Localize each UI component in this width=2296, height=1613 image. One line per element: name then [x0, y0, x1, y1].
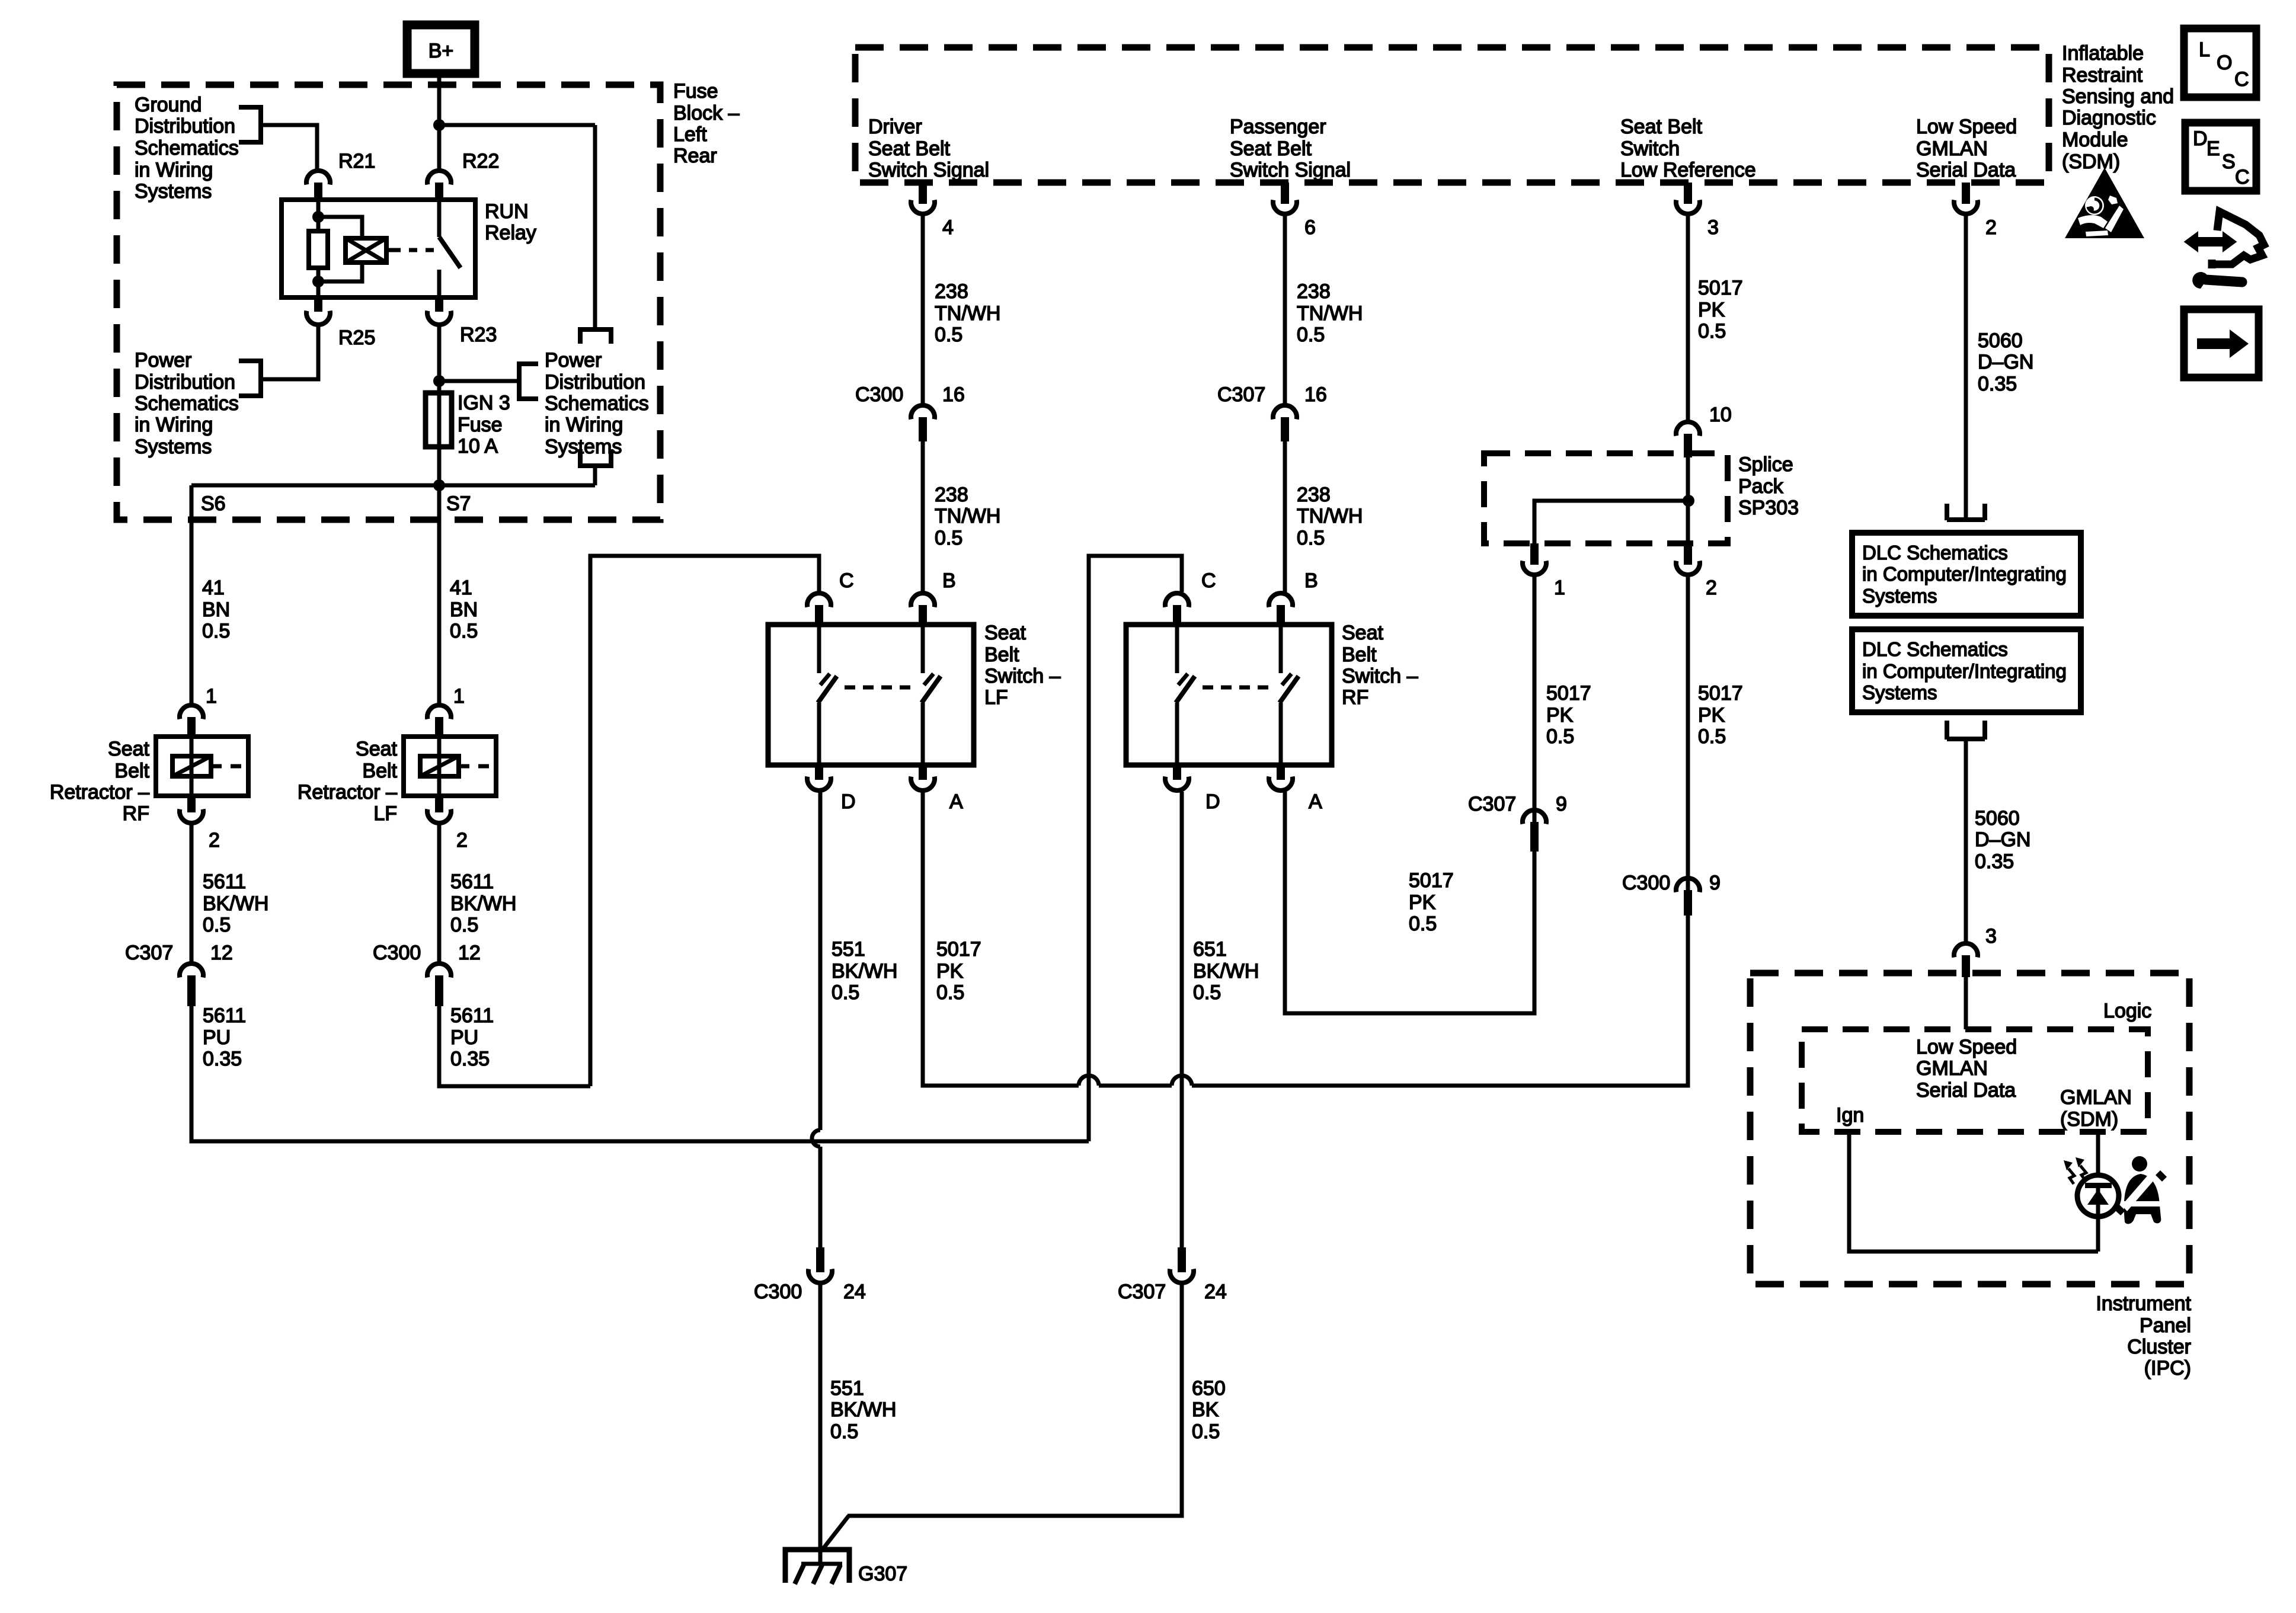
seat belt retractor RF box [156, 737, 248, 796]
icon DESC box [2185, 123, 2256, 191]
svg-text:D: D [2193, 127, 2208, 150]
svg-text:238: 238 [1297, 280, 1331, 303]
svg-text:PU: PU [450, 1026, 478, 1049]
svg-text:Low Reference: Low Reference [1620, 159, 1756, 181]
SDM pin 4 connector [911, 183, 954, 239]
svg-text:RF: RF [1342, 686, 1368, 709]
svg-text:Switch –: Switch – [1342, 665, 1418, 687]
svg-text:RF: RF [123, 802, 149, 825]
label 551 BK/WH 0.5 upper [832, 938, 897, 1004]
label 5060 D-GN 0.35 upper [1978, 329, 2033, 395]
svg-text:0.5: 0.5 [1698, 725, 1726, 748]
label 551 BK/WH 0.5 lower [830, 1377, 896, 1443]
svg-text:Seat: Seat [1342, 622, 1383, 644]
svg-text:C300: C300 [373, 942, 421, 964]
svg-text:2: 2 [1985, 216, 1997, 239]
svg-text:Schematics: Schematics [135, 392, 239, 415]
svg-text:2: 2 [1706, 577, 1717, 599]
inline connector C300-12 [373, 942, 481, 1006]
wire R25 to power distribution bracket left [263, 326, 318, 379]
svg-text:C307: C307 [1118, 1281, 1166, 1303]
svg-text:in Computer/Integrating: in Computer/Integrating [1862, 563, 2067, 585]
svg-text:Distribution: Distribution [135, 371, 235, 393]
wire 651 BK/WH switch RF pin D to C307-24 [1180, 792, 1184, 1247]
svg-text:238: 238 [1297, 484, 1331, 506]
connector 10 splice pack [1676, 404, 1732, 457]
svg-text:Switch –: Switch – [984, 665, 1061, 687]
svg-text:0.5: 0.5 [832, 981, 859, 1004]
svg-text:Switch Signal: Switch Signal [868, 159, 989, 181]
svg-text:16: 16 [942, 383, 965, 406]
logic inner dashed outline [1802, 1029, 2148, 1132]
label 238 TN/WH 0.5 lower (driver) [935, 484, 1000, 549]
label wire 41 BN 0.5 (LF column) [450, 577, 478, 642]
wire 551 BK/WH switch LF pin D to C300-24 [812, 792, 820, 1247]
inline connector C307-24 [1118, 1247, 1227, 1303]
svg-text:C300: C300 [1622, 872, 1670, 894]
relay junction node upper [312, 211, 324, 223]
svg-text:Serial Data: Serial Data [1916, 1079, 2016, 1102]
svg-text:551: 551 [830, 1377, 864, 1400]
svg-text:0.5: 0.5 [936, 981, 964, 1004]
wire 5611 PU LF retractor to switch LF pin C [439, 556, 819, 1086]
svg-text:Instrument: Instrument [2096, 1292, 2191, 1315]
svg-text:5611: 5611 [203, 1004, 246, 1027]
label 5017 PK 0.5 (LF A column) [936, 938, 981, 1004]
label logic [2103, 1000, 2151, 1022]
junction node fuse top [433, 375, 517, 387]
svg-text:Passenger: Passenger [1230, 116, 1326, 138]
svg-text:Serial Data: Serial Data [1916, 159, 2016, 181]
svg-text:B+: B+ [428, 40, 454, 62]
svg-text:Retractor –: Retractor – [50, 781, 149, 804]
svg-text:(SDM): (SDM) [2060, 1108, 2118, 1131]
svg-text:6: 6 [1304, 216, 1316, 239]
label wire 5611 PU 0.35 (RF) [203, 1004, 246, 1070]
svg-text:in Computer/Integrating: in Computer/Integrating [1862, 660, 2067, 682]
bracket power distribution right of fuse [519, 361, 538, 401]
svg-text:R25: R25 [338, 327, 375, 349]
seat belt retractor LF box [404, 737, 496, 796]
connector R23 [427, 297, 497, 346]
DLC schematics box 2 [1852, 629, 2081, 712]
svg-text:Panel: Panel [2140, 1314, 2191, 1337]
bracket power distribution upper right [578, 329, 613, 344]
svg-text:12: 12 [458, 942, 481, 964]
svg-text:Logic: Logic [2103, 1000, 2151, 1022]
label seat belt switch LF [984, 622, 1061, 709]
pin 1 connector of retractor RF [180, 685, 217, 739]
svg-text:BK/WH: BK/WH [1193, 960, 1259, 982]
svg-text:Relay: Relay [485, 222, 536, 244]
label power distribution schematics left [135, 349, 239, 458]
svg-text:5060: 5060 [1975, 807, 2020, 830]
svg-text:0.5: 0.5 [1698, 320, 1726, 343]
svg-text:9: 9 [1709, 872, 1721, 894]
svg-text:D: D [841, 791, 856, 813]
svg-text:41: 41 [202, 577, 225, 599]
pin labels C B D A (LF switch) [839, 569, 963, 813]
inline connector C300-24 [754, 1247, 866, 1303]
svg-text:C300: C300 [855, 383, 903, 406]
instrument panel cluster dashed outline [1750, 973, 2189, 1284]
svg-text:Power: Power [545, 349, 602, 372]
svg-text:Systems: Systems [1862, 681, 1937, 703]
svg-text:(IPC): (IPC) [2144, 1357, 2191, 1380]
inline connector C307-16 [1217, 383, 1327, 441]
svg-text:5017: 5017 [1546, 682, 1591, 705]
svg-text:C: C [2235, 166, 2250, 188]
svg-text:Diagnostic: Diagnostic [2062, 107, 2156, 129]
fuse IGN 3 [426, 392, 510, 457]
seat belt switch RF box [1126, 593, 1332, 791]
svg-text:D–GN: D–GN [1978, 351, 2033, 373]
svg-text:D–GN: D–GN [1975, 828, 2030, 851]
svg-text:Low Speed: Low Speed [1916, 1036, 2017, 1058]
wire pin 3 into logic box [1964, 977, 1968, 1029]
svg-text:0.5: 0.5 [450, 914, 478, 936]
label S6 [201, 492, 226, 515]
IPC pin 3 connector [1954, 925, 1997, 977]
wire 238 TN/WH lower (driver) [921, 441, 925, 592]
svg-text:D: D [1205, 791, 1220, 813]
svg-text:TN/WH: TN/WH [935, 302, 1000, 325]
icon communication hand and wrench [2186, 212, 2264, 289]
label 5017 PK 0.5 (pin 3 column) [1698, 277, 1743, 343]
icon forward arrow box [2184, 309, 2259, 377]
svg-text:5611: 5611 [450, 870, 494, 893]
svg-text:Systems: Systems [135, 436, 212, 458]
connector R25 [306, 297, 375, 349]
relay coil branch wires [318, 217, 362, 281]
connector R21 [306, 150, 375, 201]
wire lower right bracket to S7 bus [593, 466, 597, 485]
svg-text:BK/WH: BK/WH [832, 960, 897, 982]
label 5017 PK 0.5 (pin 2 column) [1698, 682, 1743, 748]
wire 5060 D-GN to IPC pin 3 [1964, 739, 1968, 942]
power feed B+ box [407, 25, 475, 73]
svg-text:R22: R22 [462, 150, 499, 172]
svg-text:Left: Left [673, 123, 707, 146]
svg-text:Inflatable: Inflatable [2062, 42, 2144, 65]
svg-text:0.35: 0.35 [450, 1048, 490, 1070]
svg-text:C307: C307 [125, 942, 173, 964]
svg-text:Ign: Ign [1836, 1104, 1864, 1126]
relay resistor [309, 231, 328, 268]
svg-text:3: 3 [1985, 925, 1997, 948]
label 5017 PK 0.5 (pin 1 column) [1546, 682, 1591, 748]
wire 238 TN/WH upper (passenger) [1283, 215, 1287, 404]
seat belt switch LF box [768, 593, 974, 791]
svg-text:Belt: Belt [1342, 644, 1377, 666]
relay switch fixed contact lower [437, 270, 442, 295]
svg-text:TN/WH: TN/WH [1297, 302, 1363, 325]
svg-text:DLC Schematics: DLC Schematics [1862, 542, 2008, 564]
seat belt indicator LED [2077, 1175, 2119, 1252]
wire ground distribution bracket to R21 [263, 125, 317, 169]
label 650 BK 0.5 [1192, 1377, 1226, 1443]
wire 238 TN/WH lower (passenger) [1283, 441, 1287, 592]
svg-text:3: 3 [1707, 216, 1719, 239]
svg-text:0.35: 0.35 [1978, 373, 2017, 395]
wire 5017 PK SP303 pin1 to C307-9 [1533, 576, 1537, 823]
svg-text:Schematics: Schematics [135, 137, 239, 159]
wire R23 down through fuse to S7 [437, 326, 442, 485]
label 651 BK/WH 0.5 [1193, 938, 1259, 1004]
svg-text:9: 9 [1556, 793, 1567, 815]
seat belt wearer icon [2113, 1156, 2167, 1224]
svg-text:DLC Schematics: DLC Schematics [1862, 638, 2008, 660]
inflatable restraint SDM dashed outline [855, 47, 2049, 183]
label gmlan sdm node [2060, 1086, 2132, 1131]
wire 41 BN to seat belt retractor RF [190, 485, 194, 704]
label wire 5611 BK/WH 0.5 (RF) [203, 870, 268, 936]
svg-text:C: C [839, 569, 854, 592]
svg-text:Sensing and: Sensing and [2062, 85, 2174, 108]
svg-text:4: 4 [942, 216, 954, 239]
svg-text:0.5: 0.5 [1193, 981, 1221, 1004]
svg-text:BK/WH: BK/WH [203, 892, 268, 915]
label driver seat belt switch signal [868, 116, 989, 181]
svg-text:0.5: 0.5 [202, 620, 230, 642]
run relay box [282, 200, 536, 297]
svg-text:Pack: Pack [1738, 475, 1784, 498]
SDM airbag warning triangle [2065, 168, 2144, 238]
pin 1 connector of retractor LF [427, 685, 465, 739]
svg-text:TN/WH: TN/WH [935, 505, 1000, 527]
svg-text:TN/WH: TN/WH [1297, 505, 1363, 527]
svg-text:24: 24 [1204, 1281, 1227, 1303]
inline connector C300-9 [1622, 872, 1721, 916]
svg-text:BK/WH: BK/WH [830, 1398, 896, 1421]
svg-text:C300: C300 [754, 1281, 802, 1303]
svg-text:0.5: 0.5 [1546, 725, 1574, 748]
bracket ground distribution [239, 105, 261, 145]
svg-text:Distribution: Distribution [545, 371, 645, 393]
svg-text:C: C [2234, 68, 2249, 91]
svg-text:Cluster: Cluster [2127, 1336, 2191, 1358]
inline connector C307-12 [125, 942, 233, 1006]
wire 5611 BK/WH retractor LF [437, 824, 442, 962]
svg-text:Power: Power [135, 349, 191, 372]
svg-text:0.5: 0.5 [935, 527, 962, 549]
svg-text:PK: PK [1698, 299, 1725, 321]
label wire 5611 BK/WH 0.5 (LF) [450, 870, 516, 936]
svg-text:238: 238 [935, 484, 968, 506]
svg-text:41: 41 [450, 577, 472, 599]
svg-text:0.5: 0.5 [203, 914, 231, 936]
label wire 5611 PU 0.35 (LF) [450, 1004, 494, 1070]
svg-text:R23: R23 [460, 324, 497, 346]
label seat belt switch RF [1342, 622, 1418, 709]
svg-text:in Wiring: in Wiring [135, 414, 213, 436]
svg-text:GMLAN: GMLAN [1916, 137, 1988, 160]
label power distribution schematics right [545, 349, 649, 458]
svg-text:S6: S6 [201, 492, 226, 515]
bracket from DLC schematics lower [1947, 721, 1985, 740]
svg-text:Driver: Driver [868, 116, 922, 138]
svg-text:5611: 5611 [203, 870, 246, 893]
svg-text:Belt: Belt [362, 760, 397, 782]
relay wire below resistor [316, 268, 321, 295]
svg-text:(SDM): (SDM) [2062, 151, 2120, 173]
svg-text:24: 24 [843, 1281, 866, 1303]
relay switch blade [439, 237, 461, 268]
svg-text:LF: LF [373, 802, 397, 825]
wire gmlan sdm to indicator [2096, 1132, 2100, 1176]
svg-text:0.5: 0.5 [1409, 913, 1437, 935]
SDM pin 2 connector [1954, 183, 1997, 239]
svg-text:Seat: Seat [356, 738, 397, 760]
svg-text:S: S [2222, 151, 2236, 173]
svg-text:BK: BK [1192, 1398, 1219, 1421]
splice pack SP303 dashed outline [1484, 453, 1728, 543]
bracket power distribution left [239, 359, 261, 398]
svg-text:BK/WH: BK/WH [450, 892, 516, 915]
svg-text:GMLAN: GMLAN [2060, 1086, 2132, 1109]
wire C300-9 to switch LF pin A [923, 792, 1688, 1086]
svg-text:B: B [1304, 569, 1318, 592]
svg-text:1: 1 [1554, 577, 1565, 599]
wire 5611 PU RF retractor to switch RF pin C [191, 556, 1182, 1141]
svg-text:Module: Module [2062, 129, 2128, 151]
svg-text:Seat Belt: Seat Belt [1620, 116, 1703, 138]
wire 5017 PK SDM pin 3 to SP303 pin 10 [1686, 215, 1690, 421]
relay junction node lower [312, 276, 324, 287]
svg-text:0.35: 0.35 [1975, 850, 2014, 873]
ground G307 symbol [785, 1550, 849, 1584]
svg-text:Seat: Seat [108, 738, 149, 760]
svg-text:551: 551 [832, 938, 865, 961]
label 5017 PK 0.5 (RF A column) [1409, 869, 1454, 935]
svg-text:10 A: 10 A [458, 435, 498, 457]
svg-text:R21: R21 [338, 150, 375, 172]
svg-text:O: O [2217, 52, 2232, 74]
svg-text:1: 1 [453, 685, 465, 708]
svg-text:PK: PK [1698, 704, 1725, 727]
svg-text:C307: C307 [1217, 383, 1265, 406]
label ign node [1836, 1104, 1864, 1126]
svg-text:PK: PK [936, 960, 964, 982]
svg-text:16: 16 [1304, 383, 1327, 406]
label 238 TN/WH 0.5 upper (passenger) [1297, 280, 1363, 346]
svg-text:in Wiring: in Wiring [135, 159, 213, 181]
SP303 pin 2 connector [1676, 543, 1717, 599]
svg-text:S7: S7 [446, 492, 471, 515]
svg-text:Distribution: Distribution [135, 115, 235, 137]
svg-text:12: 12 [210, 942, 233, 964]
svg-text:B: B [942, 569, 956, 592]
svg-text:LF: LF [984, 686, 1008, 709]
label passenger seat belt switch signal [1230, 116, 1351, 181]
SDM pin 3 connector [1676, 183, 1719, 239]
svg-text:IGN 3: IGN 3 [458, 392, 510, 414]
svg-text:2: 2 [456, 829, 468, 852]
svg-text:5017: 5017 [1698, 277, 1743, 299]
svg-text:0.5: 0.5 [935, 324, 962, 346]
svg-text:0.5: 0.5 [450, 620, 478, 642]
relay switch fixed contact upper [437, 202, 442, 237]
connector R22 [427, 125, 499, 201]
junction node B+ / R22 / power distribution [433, 119, 595, 131]
svg-text:238: 238 [935, 280, 968, 303]
DLC schematics box 1 [1852, 533, 2081, 616]
svg-text:Rear: Rear [673, 145, 717, 167]
svg-text:0.5: 0.5 [1297, 527, 1325, 549]
label seat belt retractor LF [298, 738, 398, 825]
bus wire S6-S7 [191, 484, 595, 488]
icon LOC box [2184, 28, 2256, 97]
svg-text:651: 651 [1193, 938, 1227, 961]
svg-text:Fuse: Fuse [458, 414, 503, 436]
svg-text:C307: C307 [1468, 793, 1516, 815]
wire 5060 D-GN SDM pin 2 down [1964, 215, 1968, 518]
label low speed gmlan serial data (SDM) [1916, 116, 2017, 181]
SP303 pin 1 connector [1523, 543, 1565, 599]
inline connector C300-16 [855, 383, 965, 441]
svg-text:1: 1 [206, 685, 217, 708]
SDM pin 6 connector [1273, 183, 1316, 239]
svg-text:RUN: RUN [485, 200, 529, 223]
svg-text:Block –: Block – [673, 102, 740, 124]
label seat belt retractor RF [50, 738, 150, 825]
bracket power distribution lower right [578, 449, 613, 466]
fuse block - left rear dashed outline [117, 85, 660, 520]
label SDM module [2062, 42, 2174, 173]
label S7 [446, 492, 471, 515]
svg-text:SP303: SP303 [1738, 497, 1799, 519]
svg-text:Schematics: Schematics [545, 392, 649, 415]
relay coil element [346, 238, 386, 263]
pin 2 connector of retractor RF [180, 796, 220, 852]
svg-text:Low Speed: Low Speed [1916, 116, 2017, 138]
svg-text:Restraint: Restraint [2062, 64, 2143, 87]
svg-text:10: 10 [1709, 404, 1732, 426]
wire C307-9 to switch RF pin A [1285, 792, 1534, 1013]
svg-text:BN: BN [202, 599, 230, 621]
wire ign to lamp return [1849, 1132, 2098, 1252]
wire 650 BK to ground junction [821, 1284, 1182, 1551]
svg-text:5060: 5060 [1978, 329, 2023, 352]
svg-text:Systems: Systems [1862, 585, 1937, 607]
label splice pack SP303 [1738, 453, 1799, 519]
svg-text:Switch: Switch [1620, 137, 1680, 160]
svg-text:Seat: Seat [984, 622, 1026, 644]
wire 238 TN/WH upper (driver) [921, 215, 925, 404]
svg-text:L: L [2199, 39, 2210, 61]
svg-text:5017: 5017 [1409, 869, 1454, 892]
svg-text:2: 2 [209, 829, 220, 852]
svg-text:Belt: Belt [114, 760, 149, 782]
label seat belt switch low reference [1620, 116, 1756, 181]
label 238 TN/WH 0.5 lower (passenger) [1297, 484, 1363, 549]
label 238 TN/WH 0.5 upper (driver) [935, 280, 1000, 346]
svg-text:0.5: 0.5 [830, 1420, 858, 1443]
relay coil feed wire left [316, 202, 321, 231]
svg-text:5017: 5017 [936, 938, 981, 961]
svg-text:Splice: Splice [1738, 453, 1793, 476]
svg-text:A: A [949, 791, 963, 813]
svg-text:BN: BN [450, 599, 478, 621]
svg-text:5017: 5017 [1698, 682, 1743, 705]
svg-text:Seat Belt: Seat Belt [1230, 137, 1312, 160]
svg-text:E: E [2207, 137, 2220, 160]
svg-text:GMLAN: GMLAN [1916, 1057, 1988, 1080]
wire 5611 BK/WH retractor RF [190, 824, 194, 962]
svg-text:0.5: 0.5 [1297, 324, 1325, 346]
svg-text:Retractor –: Retractor – [298, 781, 397, 804]
label G307 [858, 1563, 907, 1585]
